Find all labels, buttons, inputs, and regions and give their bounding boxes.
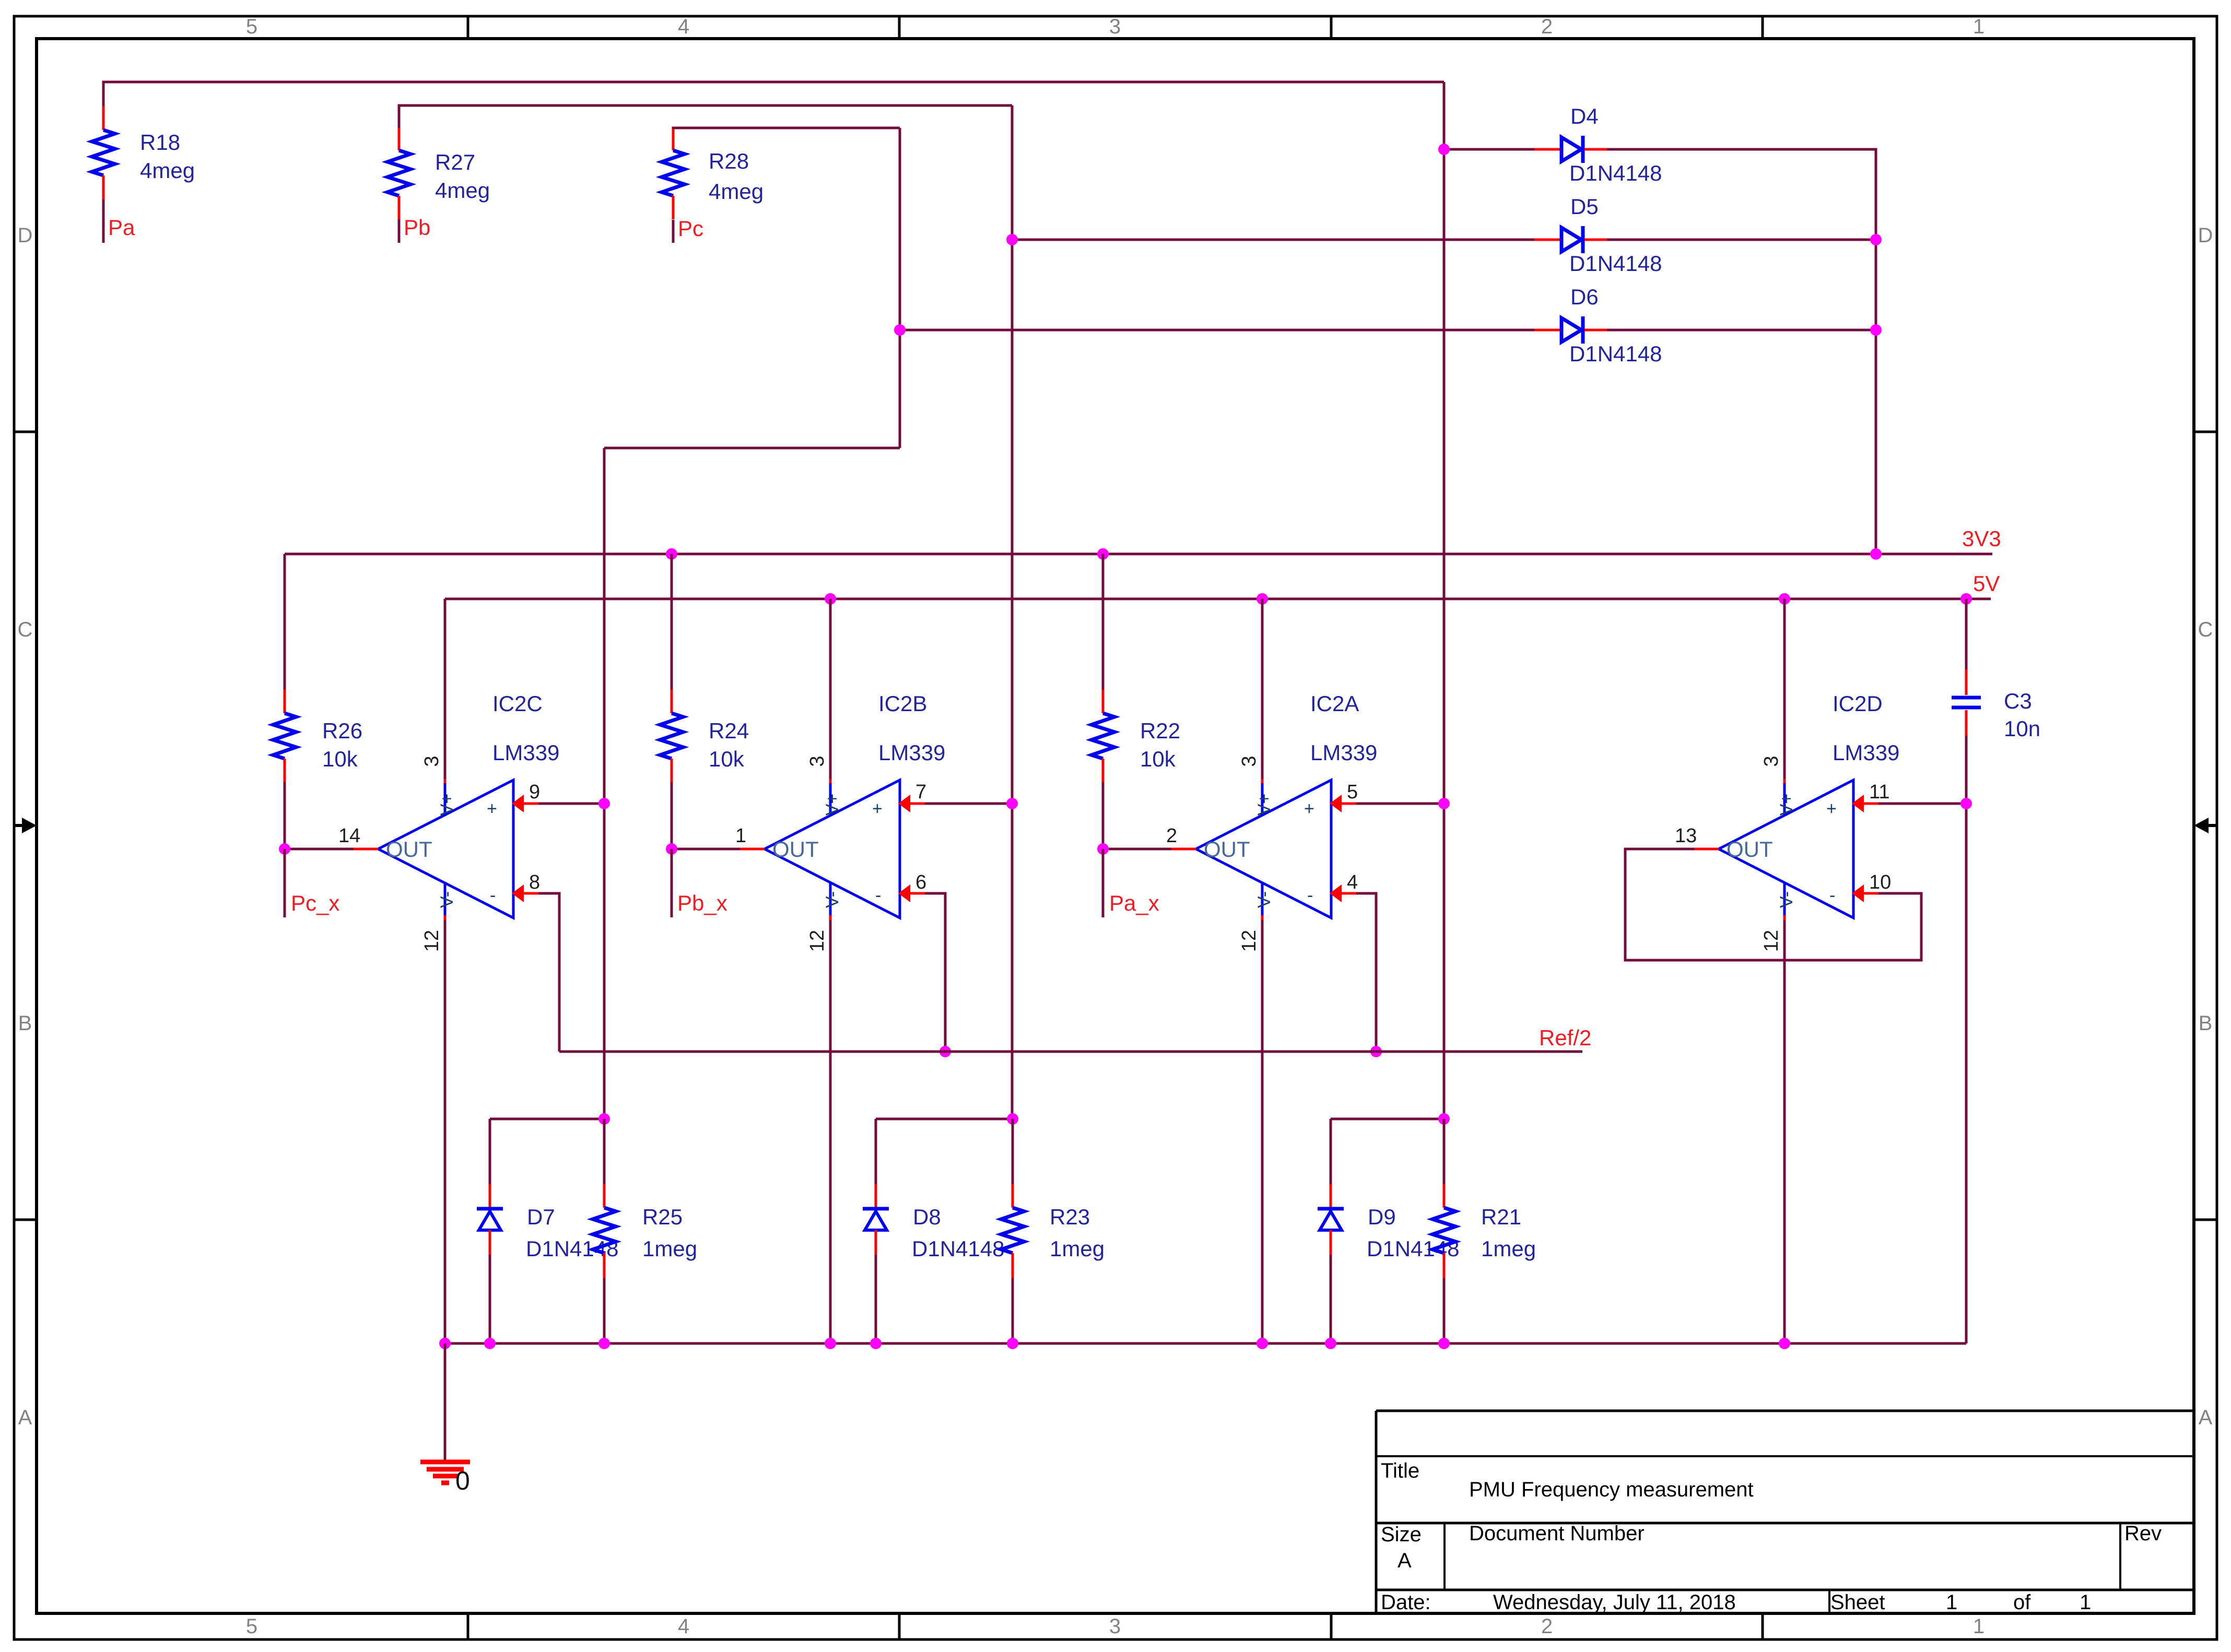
wire Pb top run: [399, 105, 1012, 128]
wire IC2C pin12 to bus: [444, 920, 447, 1343]
svg-text:Pc: Pc: [678, 216, 703, 241]
svg-text:10n: 10n: [2004, 716, 2040, 741]
svg-text:D6: D6: [1570, 285, 1599, 309]
svg-text:Size: Size: [1381, 1523, 1422, 1546]
svg-text:4: 4: [678, 15, 689, 38]
svg-text:8: 8: [529, 871, 540, 893]
svg-text:B: B: [2199, 1012, 2213, 1035]
svg-text:3: 3: [806, 756, 828, 766]
svg-text:LM339: LM339: [1310, 740, 1377, 765]
junction D6 right: [1870, 324, 1882, 336]
TITLEBLOCK: [1376, 1411, 2194, 1614]
svg-text:0: 0: [455, 1466, 470, 1495]
junction bus R21: [1438, 1338, 1450, 1349]
svg-text:5: 5: [1347, 781, 1358, 803]
wire IC2B pin12 to bus: [829, 920, 832, 1343]
svg-text:Pb_x: Pb_x: [677, 891, 727, 915]
wire vertical down to IC2C plus and R25 node: [603, 448, 606, 1119]
wire IC2B plus input: [925, 803, 1012, 805]
junction 5V IC2B: [825, 593, 836, 605]
junction bus IC2D pin12: [1779, 1338, 1790, 1349]
resistor R27: [388, 128, 490, 219]
junction R23 node: [1007, 1113, 1018, 1125]
svg-text:A: A: [2199, 1406, 2213, 1429]
wire IC2C minus input to Ref2: [538, 893, 559, 1052]
svg-text:+: +: [1826, 799, 1837, 819]
svg-text:V-: V-: [1777, 891, 1796, 908]
svg-text:V+: V+: [1254, 794, 1274, 816]
svg-text:3: 3: [1760, 756, 1782, 766]
svg-text:1: 1: [2080, 1591, 2091, 1614]
svg-text:11: 11: [1869, 781, 1889, 803]
wire D6 row left: [900, 329, 1534, 332]
svg-text:IC2B: IC2B: [878, 691, 927, 716]
junction D4 tap: [1438, 144, 1450, 155]
svg-text:R25: R25: [642, 1205, 683, 1229]
junction D6 tap: [894, 324, 906, 336]
svg-text:Pa: Pa: [108, 215, 135, 240]
wire Ref2 row: [559, 1051, 1582, 1053]
ground: [420, 1462, 470, 1495]
svg-text:1: 1: [735, 825, 746, 847]
svg-text:+: +: [487, 799, 497, 819]
wire IC2C plus input: [538, 803, 604, 805]
node Pc_x: [285, 849, 339, 917]
svg-text:D4: D4: [1570, 104, 1599, 128]
BOTTOM: [420, 1113, 1966, 1495]
svg-text:12: 12: [1760, 930, 1782, 952]
svg-text:Pa_x: Pa_x: [1109, 891, 1159, 915]
wire IC2D feedback loop: [1625, 849, 1921, 960]
diode D9: [1318, 1119, 1459, 1343]
wire right vertical to bus: [1965, 804, 1968, 1343]
svg-text:10: 10: [1869, 871, 1891, 893]
wire IC2A pin12 to bus: [1261, 920, 1264, 1343]
svg-text:IC2D: IC2D: [1833, 691, 1883, 716]
svg-text:A: A: [1398, 1549, 1412, 1572]
diode D7: [477, 1119, 618, 1343]
svg-text:Title: Title: [1381, 1459, 1419, 1482]
junction IC2B plus: [1006, 798, 1018, 809]
svg-text:4: 4: [1347, 871, 1358, 893]
svg-text:IC2C: IC2C: [492, 691, 543, 716]
junction 5V IC2A: [1257, 593, 1268, 605]
wire D8 R23 node row: [876, 1118, 1013, 1120]
junction IC2C plus: [598, 798, 610, 809]
junction bus R25: [598, 1338, 610, 1349]
svg-text:R23: R23: [1050, 1205, 1090, 1229]
wire ground bus: [445, 1342, 1966, 1345]
junction bus D7: [484, 1338, 496, 1349]
TOPSECTION: [92, 82, 1882, 1119]
diode D6: [1534, 285, 1662, 366]
svg-text:D5: D5: [1570, 194, 1599, 219]
wire IC2B minus input to Ref2: [925, 893, 945, 1052]
svg-text:Rev: Rev: [2124, 1522, 2162, 1545]
junction bus IC2C pin12: [439, 1338, 451, 1349]
svg-text:B: B: [18, 1012, 32, 1035]
junction bus IC2B pin12: [825, 1338, 836, 1349]
svg-text:3: 3: [1109, 15, 1121, 38]
op-amp IC2A: [1166, 599, 1377, 952]
diode D8: [863, 1119, 1004, 1343]
svg-text:5: 5: [246, 15, 257, 38]
svg-text:D9: D9: [1368, 1205, 1396, 1229]
svg-text:Document Number: Document Number: [1469, 1522, 1645, 1545]
svg-text:9: 9: [529, 781, 540, 803]
svg-text:LM339: LM339: [878, 740, 945, 765]
junction IC2A plus: [1438, 798, 1450, 809]
wire IC2A minus input to Ref2: [1356, 893, 1376, 1052]
svg-text:-: -: [490, 886, 496, 905]
svg-text:C: C: [18, 618, 33, 641]
svg-text:R22: R22: [1140, 718, 1180, 743]
wire IC2A out: [1103, 848, 1171, 851]
junction IC2C out: [279, 843, 290, 855]
svg-text:Sheet: Sheet: [1830, 1591, 1885, 1614]
svg-text:V+: V+: [437, 794, 457, 816]
junction R25 node: [598, 1113, 610, 1125]
svg-text:D: D: [18, 224, 33, 247]
svg-text:12: 12: [421, 930, 443, 952]
svg-text:3: 3: [1238, 756, 1260, 766]
svg-text:4meg: 4meg: [435, 178, 490, 203]
svg-text:R24: R24: [709, 718, 749, 743]
svg-text:3V3: 3V3: [1962, 526, 2001, 551]
svg-text:D8: D8: [913, 1205, 941, 1229]
svg-text:4meg: 4meg: [140, 158, 195, 183]
junction IC2A out: [1097, 843, 1109, 855]
resistor R22: [1091, 554, 1180, 849]
svg-text:R21: R21: [1481, 1205, 1521, 1229]
junction IC2B out: [666, 843, 677, 855]
svg-text:Pb: Pb: [404, 215, 430, 240]
svg-text:LM339: LM339: [492, 740, 559, 765]
wire IC2D pin12 to bus: [1783, 920, 1786, 1343]
junction R21 node: [1438, 1113, 1450, 1125]
junction IC2D plus: [1960, 798, 1972, 809]
svg-text:1: 1: [1973, 15, 1985, 38]
op-amp IC2B: [735, 599, 945, 952]
svg-text:+: +: [1304, 799, 1314, 819]
wire IC2C out: [285, 848, 354, 851]
junction D5 tap: [1006, 234, 1018, 245]
wire IC2D plus input: [1878, 803, 1966, 805]
wire C3 top: [1965, 599, 1968, 669]
wire D5 row right: [1607, 239, 1876, 241]
COMPARATORS: [273, 554, 1972, 1343]
svg-text:13: 13: [1675, 825, 1697, 847]
svg-text:OUT: OUT: [386, 837, 432, 862]
svg-text:Wednesday, July 11, 2018: Wednesday, July 11, 2018: [1493, 1591, 1736, 1614]
svg-text:A: A: [18, 1406, 32, 1429]
svg-text:R27: R27: [435, 150, 475, 174]
svg-text:V-: V-: [1254, 891, 1274, 908]
junction IC2A minus Ref2: [1370, 1046, 1382, 1057]
svg-text:of: of: [2013, 1591, 2031, 1614]
junction 3V3 R22: [1097, 548, 1109, 560]
junction 3V3 from diodes: [1870, 548, 1882, 560]
svg-text:D1N4148: D1N4148: [1569, 251, 1662, 276]
svg-text:D: D: [2198, 224, 2213, 247]
svg-text:1meg: 1meg: [1050, 1236, 1105, 1261]
svg-text:14: 14: [338, 825, 360, 847]
wire 3V3 rail: [285, 553, 1992, 556]
resistor R18: [92, 106, 195, 199]
wire IC2A plus input: [1356, 803, 1444, 805]
capacitor C3: [1952, 669, 2040, 741]
svg-text:V-: V-: [437, 891, 457, 908]
wire Pa top run: [103, 82, 1444, 106]
wire D5 row left: [1012, 239, 1534, 241]
svg-text:4: 4: [678, 1615, 689, 1638]
svg-text:OUT: OUT: [1727, 837, 1773, 862]
svg-text:6: 6: [915, 871, 926, 893]
svg-text:5: 5: [246, 1615, 257, 1638]
svg-text:-: -: [1829, 886, 1835, 905]
svg-text:1: 1: [1946, 1591, 1957, 1614]
svg-text:10k: 10k: [709, 747, 745, 771]
svg-text:12: 12: [1238, 930, 1260, 952]
svg-text:LM339: LM339: [1833, 740, 1899, 765]
resistor R21: [1432, 1119, 1536, 1343]
svg-text:1meg: 1meg: [642, 1236, 697, 1261]
wire vertical from Pb run down to IC2B plus and R23 node: [1011, 105, 1014, 1119]
svg-text:R26: R26: [322, 718, 362, 743]
svg-text:IC2A: IC2A: [1310, 691, 1359, 716]
junction D5 right: [1870, 234, 1882, 245]
junction 3V3 R24: [666, 548, 677, 560]
svg-text:10k: 10k: [322, 747, 358, 771]
svg-text:V+: V+: [1777, 794, 1796, 816]
svg-text:PMU Frequency measurement: PMU Frequency measurement: [1469, 1478, 1754, 1501]
junction bus IC2A pin12: [1257, 1338, 1268, 1349]
junction 5V C3: [1960, 593, 1972, 605]
junction bus D9: [1325, 1338, 1336, 1349]
svg-text:V+: V+: [823, 794, 842, 816]
svg-text:2: 2: [1166, 825, 1177, 847]
node Pa_x: [1103, 849, 1159, 917]
svg-text:4meg: 4meg: [709, 179, 764, 204]
resistor R24: [660, 554, 749, 849]
svg-text:2: 2: [1541, 15, 1553, 38]
wire vertical from Pc run down to jog: [899, 128, 901, 448]
diode D5: [1534, 194, 1662, 276]
svg-text:-: -: [875, 886, 881, 905]
svg-text:OUT: OUT: [1204, 837, 1250, 862]
svg-text:12: 12: [806, 930, 828, 952]
svg-text:V-: V-: [823, 891, 842, 908]
wire D4 row right: [1607, 149, 1876, 554]
RAILS: [285, 526, 2040, 1343]
junction 5V IC2D: [1779, 593, 1790, 605]
svg-text:2: 2: [1541, 1615, 1553, 1638]
junction IC2B minus Ref2: [940, 1046, 951, 1057]
wire vertical from Pa run down to IC2A plus and R21 node: [1443, 82, 1446, 1119]
resistor R23: [1001, 1119, 1105, 1343]
svg-text:C3: C3: [2004, 689, 2032, 713]
svg-text:C: C: [2198, 618, 2213, 641]
diode D4: [1534, 104, 1662, 185]
svg-text:D1N4148: D1N4148: [1569, 341, 1662, 366]
svg-text:1: 1: [1973, 1615, 1985, 1638]
wire C3 bottom to IC2D plus: [1965, 736, 1968, 804]
wire D4 row left: [1444, 148, 1534, 151]
wire D7 R25 node row: [490, 1118, 604, 1120]
wire ground stem: [444, 1343, 447, 1460]
junction bus D8: [870, 1338, 882, 1349]
wire D6 row right: [1607, 329, 1876, 332]
wire Pc top run: [673, 128, 900, 129]
svg-text:10k: 10k: [1140, 747, 1176, 771]
svg-text:Ref/2: Ref/2: [1539, 1025, 1591, 1050]
svg-text:R28: R28: [709, 149, 749, 173]
svg-text:OUT: OUT: [772, 837, 819, 862]
svg-text:5V: 5V: [1973, 571, 2000, 596]
node Pb_x: [672, 849, 727, 917]
resistor R26: [273, 554, 362, 849]
resistor R25: [593, 1119, 697, 1343]
svg-text:D7: D7: [527, 1205, 555, 1229]
wire IC2B out: [672, 848, 740, 851]
wire 5V rail: [445, 598, 1991, 600]
svg-text:3: 3: [421, 756, 443, 766]
wire D9 R21 node row: [1331, 1118, 1444, 1120]
svg-text:D1N4148: D1N4148: [912, 1236, 1004, 1261]
svg-text:+: +: [872, 799, 883, 819]
resistor R28: [662, 129, 764, 219]
op-amp IC2C: [338, 599, 559, 952]
svg-text:3: 3: [1109, 1615, 1121, 1638]
svg-text:1meg: 1meg: [1481, 1236, 1536, 1261]
op-amp IC2D: [1675, 599, 1899, 952]
svg-text:7: 7: [915, 781, 926, 803]
svg-text:R18: R18: [140, 130, 180, 155]
svg-text:Pc_x: Pc_x: [291, 891, 339, 915]
wire jog horizontal: [604, 447, 900, 450]
svg-text:D1N4148: D1N4148: [1569, 161, 1662, 185]
svg-text:Date:: Date:: [1381, 1591, 1431, 1614]
junction bus R23: [1007, 1338, 1018, 1349]
svg-text:-: -: [1307, 886, 1313, 905]
